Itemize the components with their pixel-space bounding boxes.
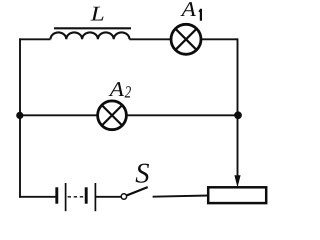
wire: top left segment [19,38,50,40]
svg-text:2: 2 [125,82,132,101]
svg-text:A: A [108,77,125,101]
wire: switch to rheostat [153,196,209,197]
wire: dashed link between cells [68,196,85,198]
svg-text:A: A [179,0,196,21]
wire: battery to switch [96,196,121,198]
switch S blade [127,187,148,195]
battery cell 2 positive plate [94,183,96,211]
wire: right rail upper [237,38,239,176]
wire: middle branch [19,114,237,116]
lamp A1 [171,24,201,54]
node junction right [234,111,242,119]
svg-text:S: S [135,159,149,190]
wire: left rail [19,38,21,197]
wire: bottom left segment [19,196,56,198]
inductor L coil [51,32,130,39]
battery cell 2 negative plate [85,187,88,203]
battery cell 1 positive plate [65,183,67,211]
rheostat wiper arrow [234,175,240,187]
inductor L core bar [54,27,131,29]
switch S pivot [121,194,126,199]
lamp A2 [98,101,127,130]
wire: top right segment [129,38,237,40]
svg-text:L: L [90,1,105,25]
battery cell 1 negative plate [55,187,58,203]
rheostat body R [208,187,266,203]
node junction left [16,112,23,119]
